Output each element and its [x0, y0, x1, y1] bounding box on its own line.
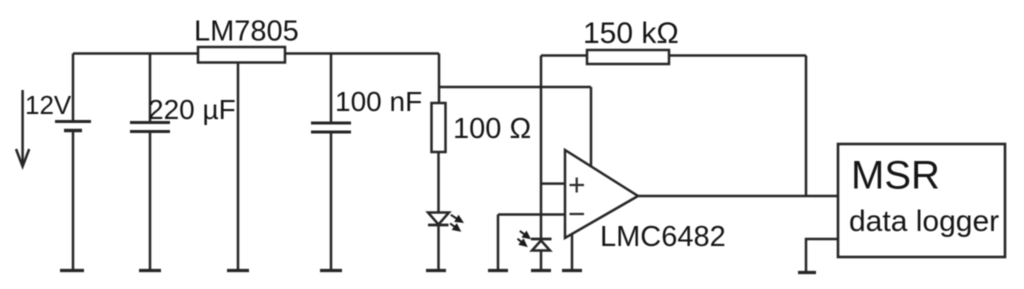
svg-text:12V: 12V [25, 90, 72, 120]
svg-text:LM7805: LM7805 [194, 16, 299, 48]
svg-text:100 Ω: 100 Ω [453, 113, 531, 145]
svg-text:LMC6482: LMC6482 [600, 221, 726, 253]
svg-text:150 kΩ: 150 kΩ [583, 17, 679, 50]
svg-text:220 µF: 220 µF [148, 94, 236, 125]
svg-text:100 nF: 100 nF [335, 86, 422, 117]
svg-text:MSR: MSR [851, 154, 940, 198]
svg-text:data logger: data logger [849, 205, 999, 238]
